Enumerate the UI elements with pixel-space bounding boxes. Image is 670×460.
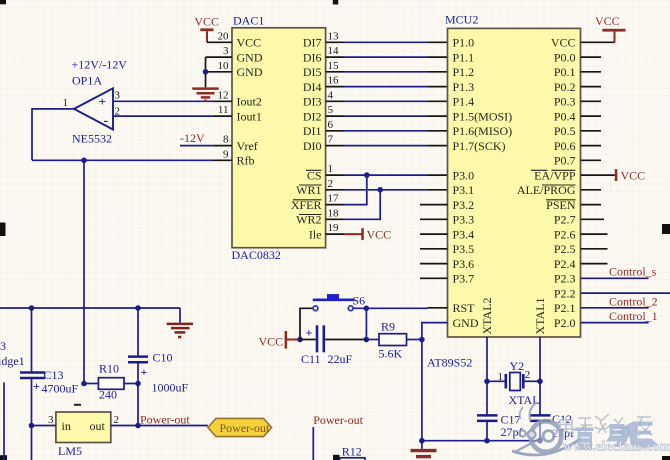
wire C10 upper lead: [137, 308, 139, 356]
svg-text:P3.0: P3.0: [453, 168, 475, 182]
node C13 tap: [29, 305, 35, 311]
svg-text:P1.2: P1.2: [453, 65, 475, 79]
svg-text:1: 1: [328, 163, 334, 175]
wire stubs P0.0-P0.7: [581, 57, 602, 160]
overline PROG: [542, 184, 576, 186]
svg-text:1: 1: [498, 371, 504, 383]
capacitor C11: [316, 325, 319, 352]
svg-text:4: 4: [328, 89, 334, 101]
wire C12 upper lead: [539, 381, 541, 415]
svg-text:P3.7: P3.7: [453, 272, 475, 286]
resistor R12 body partial: [340, 458, 366, 460]
svg-text:4700uF: 4700uF: [42, 382, 79, 396]
ground symbol at DAC: [192, 89, 218, 101]
svg-text:VCC: VCC: [595, 14, 620, 28]
svg-text:in: in: [62, 419, 71, 433]
svg-text:17: 17: [328, 193, 340, 205]
svg-text:Power-out: Power-out: [220, 421, 270, 435]
svg-text:NE5532: NE5532: [72, 132, 112, 146]
wire DAC pin 10 GND: [206, 71, 233, 73]
svg-text:Y2: Y2: [510, 359, 525, 373]
wire stub Vref: [214, 145, 232, 147]
wire R10 left: [84, 383, 98, 385]
wire CS to XFER: [344, 175, 367, 205]
svg-text:+: +: [141, 365, 148, 379]
node bottom rail left: [419, 438, 425, 444]
svg-text:P3.6: P3.6: [453, 257, 475, 271]
wire feedback to Rfb: [32, 159, 214, 161]
svg-text:XTAL1: XTAL1: [533, 297, 547, 334]
svg-text:P2.1: P2.1: [554, 301, 576, 315]
svg-text:C13: C13: [44, 368, 64, 382]
svg-text:-: -: [104, 114, 109, 129]
wire stubs P3.2-P3.7: [420, 205, 448, 279]
MCU right pin names: [517, 36, 576, 330]
svg-text:R12: R12: [342, 444, 362, 458]
wire MCU VCC pin: [581, 41, 615, 43]
node C10 tap: [135, 305, 141, 311]
DAC right pin numbers: [328, 30, 340, 234]
DAC left pin numbers: [218, 30, 230, 160]
svg-text:Iout2: Iout2: [237, 95, 262, 109]
svg-text:P3.2: P3.2: [453, 198, 475, 212]
svg-text:OP1A: OP1A: [72, 74, 102, 88]
chip DAC1 body: [232, 28, 326, 248]
svg-text:+12V/-12V: +12V/-12V: [72, 58, 128, 72]
svg-text:DAC0832: DAC0832: [232, 248, 281, 262]
wire bridge output: [3, 382, 5, 460]
svg-text:P2.7: P2.7: [554, 213, 576, 227]
svg-text:XTAL2: XTAL2: [480, 297, 494, 334]
wire Vref: [180, 145, 214, 147]
svg-text:DAC1: DAC1: [233, 14, 264, 28]
svg-text:Vref: Vref: [237, 139, 258, 153]
wire WR1 to WR2: [344, 190, 380, 220]
node C17 bottom: [484, 438, 490, 444]
DAC left pin names: [237, 36, 263, 168]
wire C17 lower lead: [486, 421, 488, 441]
wire P2.3 Control_s: [581, 277, 649, 279]
svg-text:S6: S6: [353, 294, 366, 308]
wire DAC pin 20 VCC: [207, 41, 232, 43]
node power-out junction: [135, 423, 141, 429]
svg-text:3: 3: [48, 414, 54, 426]
main ground rail wire bottom-left: [0, 307, 180, 309]
svg-text:+: +: [306, 326, 313, 340]
svg-text:DI5: DI5: [303, 65, 322, 79]
svg-text:VCC: VCC: [551, 36, 576, 50]
svg-text:P0.0: P0.0: [554, 50, 576, 64]
svg-text:P1.1: P1.1: [453, 50, 475, 64]
wire stub P2.4: [581, 263, 608, 265]
wire C11 left: [300, 339, 316, 341]
svg-text:P0.2: P0.2: [554, 80, 576, 94]
wire S6 to RST: [353, 307, 427, 309]
svg-text:DI3: DI3: [303, 95, 322, 109]
wire stub XFER: [326, 204, 344, 206]
wire LM5 out to port: [111, 425, 208, 427]
svg-text:VCC: VCC: [237, 36, 262, 50]
overline PSEN: [546, 199, 576, 201]
node C12 bottom: [537, 438, 543, 444]
svg-text:P1.7(SCK): P1.7(SCK): [453, 139, 506, 153]
svg-text:9: 9: [223, 148, 229, 160]
overline WR1: [299, 184, 322, 186]
svg-text:C11: C11: [301, 352, 321, 366]
svg-text:R9: R9: [381, 320, 395, 334]
node RST tap: [364, 306, 370, 312]
LM5 pin 1 dash: [74, 404, 81, 406]
svg-text:Power-out: Power-out: [313, 413, 363, 427]
wire WR1 to P3.1: [326, 189, 344, 191]
svg-text:15: 15: [328, 60, 340, 72]
DAC right pin names: [291, 36, 322, 242]
capacitor C12: [530, 414, 551, 417]
port Power-out: [208, 418, 272, 436]
node C11-R9 junction: [364, 337, 370, 343]
MCU left pin names: [453, 36, 513, 330]
svg-text:P2.0: P2.0: [554, 316, 576, 330]
wire op-amp inverting to Iout1: [113, 115, 214, 117]
svg-text:Ile: Ile: [309, 227, 322, 241]
node R10 right: [135, 381, 141, 387]
svg-text:2: 2: [328, 178, 334, 190]
svg-text:VCC: VCC: [259, 335, 284, 349]
crystal Y2: [504, 374, 507, 389]
wire MCU GND down: [422, 323, 448, 449]
resistor R9: [379, 334, 407, 346]
sheet corner mark bottom-left: [0, 455, 7, 460]
svg-text:2: 2: [525, 369, 531, 381]
data bus wires DI7-DI0 to P1.0-P1.7: [326, 42, 448, 145]
ground symbol at MCU: [411, 451, 437, 457]
svg-text:GND: GND: [237, 65, 263, 79]
svg-text:idge1: idge1: [0, 354, 25, 368]
wire DAC pin 3 GND: [206, 56, 233, 58]
sheet tick bottom edge: [333, 455, 340, 460]
svg-text:Control_1: Control_1: [609, 309, 658, 323]
watermark chinese characters outline: [560, 414, 653, 436]
wire C13 upper lead: [31, 308, 33, 372]
svg-text:P2.4: P2.4: [554, 257, 576, 271]
svg-text:P2.6: P2.6: [554, 227, 576, 241]
svg-text:12: 12: [218, 89, 229, 101]
wire C17 upper lead: [486, 381, 488, 415]
wire stub Iout1: [214, 115, 232, 117]
node R9-GND junction: [419, 337, 425, 343]
wire XTAL2 down: [486, 337, 488, 381]
svg-text:P0.7: P0.7: [554, 154, 576, 168]
overline XFER: [293, 199, 322, 201]
watermark large solid characters: [575, 422, 659, 451]
wire EA/VPP to VCC port: [581, 174, 615, 176]
svg-text:14: 14: [328, 45, 340, 57]
capacitor C13: [20, 371, 45, 374]
wire up to S6 left contact: [300, 308, 313, 339]
wire R9 left: [366, 339, 379, 341]
wire stub PSEN: [581, 204, 602, 206]
svg-text:DI6: DI6: [303, 50, 322, 64]
node VCC-C11 junction: [297, 337, 303, 343]
svg-text:2: 2: [114, 414, 120, 426]
resistor R10: [98, 378, 124, 390]
svg-text:www.elecfans.com: www.elecfans.com: [563, 439, 670, 454]
sheet tick right edge: [662, 224, 670, 234]
node CS junction: [364, 172, 370, 178]
svg-text:P0.4: P0.4: [554, 109, 576, 123]
wire stub P2.7: [581, 218, 605, 220]
svg-text:3: 3: [115, 90, 121, 102]
svg-text:8: 8: [223, 134, 229, 146]
wire P2.2: [581, 292, 670, 294]
svg-text:P3.3: P3.3: [453, 213, 475, 227]
svg-text:MCU2: MCU2: [445, 13, 478, 27]
node GND join: [203, 69, 209, 75]
wire C12 lower lead: [539, 421, 541, 441]
svg-text:VCC: VCC: [621, 168, 646, 182]
svg-text:P1.5(MOSI): P1.5(MOSI): [453, 109, 513, 123]
wire op-amp noninverting to Iout2: [113, 100, 214, 102]
svg-text:DI7: DI7: [303, 36, 322, 50]
svg-text:P0.5: P0.5: [554, 124, 576, 138]
svg-text:19: 19: [328, 222, 340, 234]
chip MCU2 body: [448, 28, 581, 337]
ground symbol at rail: [167, 324, 193, 337]
wire to crystal left: [487, 380, 505, 382]
watermark logo: [512, 402, 580, 455]
svg-text:GND: GND: [237, 50, 263, 64]
wire stub P2.5: [581, 248, 608, 250]
svg-text:P3.1: P3.1: [453, 183, 475, 197]
svg-text:240: 240: [99, 388, 117, 402]
op-amp OP1A triangle: [74, 88, 113, 129]
svg-text:P1.6(MISO): P1.6(MISO): [453, 124, 513, 138]
svg-text:VCC: VCC: [367, 227, 392, 241]
wire stub Ile: [326, 233, 344, 235]
svg-text:Rfb: Rfb: [237, 154, 255, 168]
svg-text:DI1: DI1: [303, 124, 322, 138]
wire power-out drop: [312, 427, 314, 460]
svg-text:Control_s: Control_s: [609, 264, 657, 278]
wire R10 right: [124, 383, 138, 385]
svg-text:RST: RST: [453, 301, 476, 315]
wire feedback down to R10: [83, 160, 85, 383]
overline WR2: [299, 214, 322, 216]
svg-text:P0.3: P0.3: [554, 95, 576, 109]
svg-text:DI4: DI4: [303, 80, 322, 94]
wire CS to P3.0: [326, 174, 344, 176]
overline EA: [531, 169, 548, 171]
svg-text:out: out: [90, 419, 106, 433]
wire stub WR2: [326, 218, 344, 220]
svg-text:1000uF: 1000uF: [152, 381, 189, 395]
overline VPP: [552, 169, 576, 171]
svg-text:13: 13: [328, 30, 340, 42]
svg-text:VCC: VCC: [194, 14, 219, 28]
wire op-amp output left: [32, 109, 74, 160]
node WR1 junction: [377, 187, 383, 193]
wire crystal right: [525, 380, 541, 382]
switch S6: [327, 294, 339, 299]
svg-text:+: +: [33, 379, 40, 393]
node LM5 in junction: [29, 423, 35, 429]
svg-text:P2.3: P2.3: [554, 272, 576, 286]
svg-text:10: 10: [218, 60, 230, 72]
wire GND pins join: [205, 57, 207, 87]
svg-text:AT89S52: AT89S52: [427, 356, 472, 370]
overline CS: [306, 169, 322, 171]
svg-text:16: 16: [328, 75, 340, 87]
capacitor C10: [128, 355, 148, 358]
svg-text:22uF: 22uF: [328, 352, 353, 366]
svg-text:P2.2: P2.2: [554, 286, 576, 300]
svg-text:P3.4: P3.4: [453, 227, 475, 241]
svg-text:Power-out: Power-out: [140, 412, 190, 426]
wire P2.0 Control_1: [581, 322, 649, 324]
watermark large characters inner details: [581, 427, 648, 444]
node feedback junction: [81, 158, 87, 164]
wire stub ALE/PROG: [581, 189, 602, 191]
sheet tick top edge: [333, 0, 338, 5]
svg-text:P1.0: P1.0: [453, 36, 475, 50]
wire XTAL1 down: [539, 337, 541, 381]
capacitor C17: [477, 414, 498, 417]
VCC port at EA/VPP: [615, 169, 618, 181]
wire stub Rfb: [214, 159, 232, 161]
svg-text:P1.4: P1.4: [453, 95, 475, 109]
wire stub Iout2: [214, 100, 232, 102]
wire P2.1 Control_2: [581, 307, 649, 309]
svg-text:3: 3: [0, 339, 6, 353]
node XTAL1 junction: [537, 379, 543, 385]
svg-text:18: 18: [328, 207, 340, 219]
wire R9 right: [407, 339, 422, 341]
sheet tick left edge: [0, 223, 6, 237]
svg-text:+: +: [99, 94, 106, 109]
svg-text:P0.1: P0.1: [554, 65, 576, 79]
wire stub P2.6: [581, 233, 608, 235]
svg-text:1: 1: [63, 97, 69, 109]
svg-text:7: 7: [328, 134, 334, 146]
svg-text:GND: GND: [453, 316, 479, 330]
svg-text:LM5: LM5: [58, 444, 82, 458]
svg-text:DI2: DI2: [303, 109, 322, 123]
svg-text:C10: C10: [153, 351, 173, 365]
svg-text:5.6K: 5.6K: [379, 347, 403, 361]
svg-text:P0.6: P0.6: [554, 139, 576, 153]
regulator LM5 body: [56, 412, 111, 443]
svg-text:11: 11: [218, 104, 229, 116]
svg-text:6: 6: [328, 119, 334, 131]
node R10 left: [81, 381, 87, 387]
svg-text:-12V: -12V: [180, 131, 205, 145]
svg-text:R10: R10: [99, 362, 119, 376]
svg-text:P2.5: P2.5: [554, 242, 576, 256]
wire C13 lower lead: [31, 378, 33, 460]
svg-text:P1.3: P1.3: [453, 80, 475, 94]
VCC port at Ile: [344, 233, 362, 235]
svg-text:5: 5: [328, 104, 334, 116]
wire bottom rail: [422, 440, 540, 442]
sheet corner mark top-left: [0, 0, 6, 4]
wire C11 right: [325, 339, 366, 341]
wire ground drop: [179, 308, 181, 323]
sheet corner mark bottom-right: [662, 456, 670, 460]
svg-text:3: 3: [223, 45, 229, 57]
svg-text:DI0: DI0: [303, 139, 322, 153]
wire C10 lower lead: [137, 362, 139, 425]
svg-text:20: 20: [218, 30, 230, 42]
wire RST tap down: [365, 308, 367, 339]
svg-text:P3.5: P3.5: [453, 242, 475, 256]
svg-text:Control_2: Control_2: [609, 294, 658, 308]
wire LM5 in: [32, 425, 56, 427]
svg-text:Iout1: Iout1: [237, 109, 262, 123]
node XTAL2 junction: [484, 379, 490, 385]
